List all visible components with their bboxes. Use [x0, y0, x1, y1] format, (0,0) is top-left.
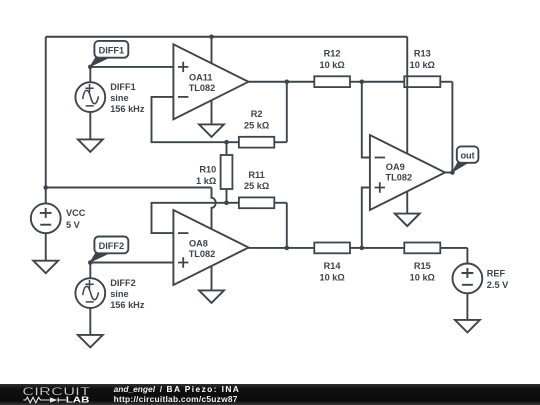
node junction R2/R10: [224, 140, 229, 145]
node DIFF2: [88, 260, 93, 265]
ground below OA11: [199, 101, 224, 137]
wire DIFF2 node to OA8 + input: [90, 262, 173, 264]
voltage source V_DIFF1: [75, 82, 144, 114]
svg-text:10 kΩ: 10 kΩ: [410, 273, 435, 283]
wire row1 junction down to OA9 - input: [362, 82, 370, 158]
svg-text:R2: R2: [251, 109, 263, 119]
flag out: [452, 146, 478, 172]
resistor R11: [227, 170, 287, 208]
svg-text:R11: R11: [248, 170, 264, 180]
svg-text:TL082: TL082: [189, 83, 216, 93]
svg-text:R15: R15: [414, 261, 431, 271]
svg-text:LAB: LAB: [66, 395, 90, 405]
wire row1 to R13: [362, 81, 405, 83]
svg-text:156 kHz: 156 kHz: [110, 300, 145, 310]
node junction VCC: [43, 185, 48, 190]
wire R11 right to row2: [286, 203, 288, 248]
flag DIFF1: [90, 41, 128, 67]
resistor R10: [196, 142, 232, 203]
svg-text:OA8: OA8: [189, 238, 208, 248]
wire R2 right to row1: [286, 82, 288, 142]
svg-text:25 kΩ: 25 kΩ: [244, 120, 269, 130]
wire DIFF2 node to source: [89, 263, 91, 279]
voltage source V_DIFF2: [75, 278, 144, 310]
wire DIFF1 node to OA11 + input: [90, 66, 173, 68]
wire OA9 output to out node: [445, 172, 452, 174]
wire VCC rail to OA8 power: [46, 187, 212, 189]
node DIFF1: [88, 65, 93, 70]
svg-text:R14: R14: [324, 261, 342, 271]
resistor R2: [227, 109, 287, 147]
wire top rail: [46, 36, 408, 38]
ground below OA9: [395, 191, 420, 226]
logo CIRCUIT LAB: [22, 385, 91, 405]
svg-text:REF: REF: [487, 268, 506, 278]
resistor R14: [287, 243, 362, 283]
wire OA8 - input feedback loop: [152, 203, 227, 233]
svg-text:out: out: [460, 150, 474, 160]
wire R15 right down to REF: [466, 248, 468, 264]
svg-text:sine: sine: [110, 93, 128, 103]
svg-text:DIFF2: DIFF2: [110, 278, 136, 288]
svg-text:TL082: TL082: [189, 249, 216, 259]
svg-text:25 kΩ: 25 kΩ: [244, 181, 269, 191]
ground below REF: [455, 293, 480, 332]
node junction row1 left: [285, 79, 290, 84]
svg-text:2.5 V: 2.5 V: [487, 280, 509, 290]
svg-text:DIFF2: DIFF2: [99, 241, 125, 251]
svg-text:and_engel: and_engel: [114, 384, 156, 394]
voltage source REF: [453, 264, 510, 294]
node junction top rail / OA11 power: [209, 34, 214, 39]
ground below DIFF2: [78, 308, 103, 347]
svg-text:R13: R13: [414, 49, 431, 59]
wire OA11 output: [248, 81, 286, 83]
wire OA8 output: [249, 247, 287, 249]
resistor R13: [404, 49, 452, 88]
wire left rail: [45, 37, 47, 204]
wire DIFF1 node to source: [89, 67, 91, 82]
resistor R12: [287, 49, 362, 88]
resistor R15: [404, 243, 467, 283]
flag DIFF2: [90, 237, 128, 263]
op-amp OA11: [173, 44, 248, 119]
svg-text:OA9: OA9: [386, 162, 405, 172]
svg-text:TL082: TL082: [386, 173, 413, 183]
ground below VCC: [33, 233, 58, 273]
ground below DIFF1: [78, 112, 103, 152]
svg-text:http://circuitlab.com/c5uzw87: http://circuitlab.com/c5uzw87: [114, 394, 238, 404]
op-amp OA8: [173, 210, 248, 285]
wire OA8 power with hop over feedback wire: [212, 188, 216, 229]
node out: [450, 170, 455, 175]
svg-text:5 V: 5 V: [66, 220, 81, 230]
ground below OA8: [199, 266, 224, 303]
svg-text:BA Piezo: INA: BA Piezo: INA: [167, 384, 241, 394]
wire OA11 - input feedback loop: [152, 97, 227, 142]
svg-text:10 kΩ: 10 kΩ: [319, 273, 344, 283]
footer bar: [0, 384, 540, 405]
svg-text:10 kΩ: 10 kΩ: [410, 60, 435, 70]
node junction row2 left: [285, 246, 290, 251]
svg-text:DIFF1: DIFF1: [99, 45, 125, 55]
svg-text:10 kΩ: 10 kΩ: [319, 60, 344, 70]
svg-text:OA11: OA11: [189, 72, 213, 82]
svg-text:DIFF1: DIFF1: [110, 82, 136, 92]
node junction row1 right: [360, 79, 365, 84]
svg-text:R10: R10: [199, 165, 216, 175]
svg-text:VCC: VCC: [66, 208, 86, 218]
footer credit text: [114, 384, 241, 404]
wire row2 junction up to OA9 + input: [362, 188, 370, 248]
wire OA11 power: [211, 37, 213, 64]
voltage source VCC: [31, 203, 86, 233]
node junction row2 right: [360, 246, 365, 251]
wire row2 to R15: [362, 247, 405, 249]
svg-text:R12: R12: [324, 49, 341, 59]
wire R13 right down to out node: [451, 82, 453, 173]
op-amp OA9: [370, 135, 445, 210]
svg-text:1 kΩ: 1 kΩ: [196, 176, 216, 186]
node junction R10/R11: [224, 201, 229, 206]
wire top rail down to OA9 power: [406, 37, 408, 154]
svg-text:156 kHz: 156 kHz: [110, 104, 145, 114]
svg-text:sine: sine: [110, 289, 128, 299]
